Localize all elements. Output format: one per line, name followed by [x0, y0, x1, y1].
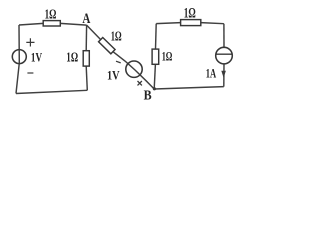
wire left-loop top right segment R1 to node A	[60, 23, 86, 25]
wire right-loop left side lower R5 to node B	[154, 64, 155, 89]
svg-text:1Ω: 1Ω	[66, 51, 78, 66]
wire left-loop top left segment to R1	[19, 23, 43, 25]
current source I1 internal bar	[216, 53, 232, 55]
resistor R1 top-left 1ohm	[43, 21, 60, 26]
label V1 plus sign	[26, 38, 34, 46]
wire right-loop top left segment	[156, 23, 180, 24]
node B junction dot	[153, 87, 156, 90]
wire diagonal branch from node A to node B	[87, 25, 155, 89]
current arrow for I1	[221, 71, 226, 78]
resistor R4 right-loop top 1ohm	[181, 20, 201, 26]
svg-text:A: A	[82, 11, 90, 27]
wire left-loop left side through source V1	[16, 25, 19, 94]
svg-text:1Ω: 1Ω	[184, 6, 196, 22]
voltage source V2 circle on diagonal	[126, 61, 142, 77]
wire right-loop top right segment	[201, 23, 224, 24]
wire right-loop right side upper to I1	[223, 24, 225, 48]
svg-text:1Ω: 1Ω	[162, 48, 173, 63]
label V2 minus tick	[116, 61, 121, 63]
label V1 minus sign	[27, 72, 33, 74]
wire right-loop bottom	[154, 87, 224, 89]
label V2 plus cross	[138, 81, 142, 85]
wire middle branch node A down to resistor R2	[85, 25, 87, 51]
svg-text:1V: 1V	[31, 50, 43, 65]
current source I1 circle	[216, 47, 233, 64]
resistor R3 diagonal 1ohm	[99, 37, 116, 53]
wire left-loop bottom	[16, 90, 87, 93]
svg-text:1A: 1A	[206, 66, 216, 80]
wire right-loop left side upper to R5	[155, 24, 158, 49]
svg-text:1Ω: 1Ω	[45, 8, 57, 23]
wire middle branch R2 to bottom wire	[86, 66, 87, 90]
resistor R5 right-loop left vertical 1ohm	[152, 49, 159, 64]
svg-text:1Ω: 1Ω	[111, 29, 122, 44]
svg-text:B: B	[144, 88, 152, 103]
svg-text:1V: 1V	[107, 68, 120, 83]
wire right-loop right side lower I1 to corner	[223, 64, 225, 87]
voltage source V1 circle	[12, 50, 26, 64]
resistor R2 middle vertical 1ohm	[83, 51, 89, 66]
